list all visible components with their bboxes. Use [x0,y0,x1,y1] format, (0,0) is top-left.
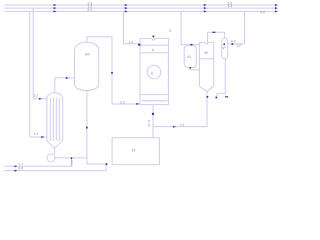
arrow header line 2 at x205 [204,7,207,9]
svg-text:1·4: 1·4 [129,40,134,44]
arrow header line 2 right end [275,7,278,9]
dot tank ET inlet [106,163,108,165]
svg-text:2·4: 2·4 [33,132,38,136]
reactor R1 vapor stub [152,37,154,39]
wire header line 3 tap to reactor top inlet [124,11,141,43]
arrow down on A01 feed drop [111,72,113,75]
dot mixer junction at pump line [71,157,73,159]
wire header line 3 tap to drum V2 inlet [228,11,245,44]
arrow exchanger top line [66,77,69,79]
wire drum V2 bottom outlet [217,58,225,96]
arrow into reactor bottom left [136,103,139,105]
wire exchanger top outlet to vessel A01 [55,78,75,93]
svg-text:3·4: 3·4 [228,5,233,9]
svg-text:8·8: 8·8 [19,167,24,171]
arrow header line 2 at x126 [125,7,128,9]
dash V2 bottoms [225,96,228,97]
svg-text:4·4: 4·4 [87,8,92,12]
svg-text:A: A [152,48,155,52]
tank ET [112,138,159,165]
svg-text:2·2: 2·2 [34,94,39,98]
svg-text:1·1: 1·1 [180,123,185,127]
arrow into exchanger lower inlet [41,136,44,138]
arrow on V1 top line [191,44,194,46]
wire reactor bottom to tank ET [152,105,154,138]
wire header line 3 [4,10,277,12]
wire bottom feed stream 2 [4,164,106,171]
wire vessel A01 top outlet [87,37,140,104]
svg-text:6: 6 [148,124,150,128]
wire feed A down to exchanger upper inlet [33,8,47,99]
svg-text:SK: SK [204,51,209,55]
wire pump outlet to tank inlet [55,158,106,164]
vessel A01 [75,42,99,90]
wire header line 2 [4,7,277,9]
heat exchanger E1 shell [47,93,63,149]
svg-text:1·P: 1·P [237,44,242,48]
svg-text:A2: A2 [221,45,227,51]
dot near V2 top [223,43,225,45]
heat exchanger E1 tubes [50,97,59,141]
wire header line 3 tap to flash V1 area [181,11,199,44]
dot V2 bottoms end [215,97,217,99]
arrow bottom feed 1 [15,165,18,167]
svg-text:ET: ET [132,148,136,152]
wire exchanger bottom tip to pump [54,148,56,154]
svg-text:3·3: 3·3 [120,100,125,104]
arrow header line 3 at x55 [54,10,57,12]
arrow down on A01 bottom line [86,127,88,130]
arrow header line 1 at x126 [125,4,128,6]
svg-text:9·: 9· [169,29,172,33]
arrow header line 1 right end [275,4,278,6]
arrow into exchanger upper inlet [39,98,42,100]
flash drum V1 [184,45,196,67]
reactor R1 internal lines [140,45,168,95]
dot V1 bottom [189,67,191,69]
svg-text:A0I: A0I [85,53,90,57]
drum V2 [222,38,228,59]
column SK body [199,42,213,91]
arrow on branch line [173,126,176,128]
dash on SK top line [212,32,215,33]
arrow header line 2 at x55 [54,7,57,9]
reactor R1 body [140,38,168,104]
dot reactor vapor stub [152,35,154,37]
reactor R1 agitator circle [147,65,161,79]
arrow header line 3 right end [275,10,278,12]
wire feed B down to exchanger lower inlet [30,11,47,137]
arrow header line 3 at x205 [204,10,207,12]
wire column SK top to drum V2 [208,32,225,43]
svg-text:4·4: 4·4 [260,10,265,14]
svg-text::: : [176,33,177,37]
pump P1 [47,154,55,162]
arrow header line 3 at x126 [125,10,128,12]
wire branch reactor bottom to column SK [153,92,207,127]
wire V1 bottom outlet to column SK [190,68,199,70]
reactor R1 tray scallops [142,99,168,102]
arrow header line 1 at x55 [54,4,57,6]
svg-text:A1: A1 [187,55,191,59]
wire header line 1 [4,4,277,6]
svg-text:JL: JL [151,72,155,76]
arrow into V2 right side [230,43,233,45]
column SK internal line [199,58,213,60]
svg-text:C: C [71,162,74,166]
arrow into reactor left top [138,44,140,46]
wire bottom feed stream 1 [4,158,71,166]
arrow down on reactor bottoms line [152,113,154,115]
arrow header line 1 at x205 [204,4,207,6]
arrow bottom feed 2 [15,170,18,172]
dot below column SK tip [206,96,208,98]
svg-text:F·F: F·F [231,39,236,43]
wire vessel A01 bottom outlet [86,91,88,158]
